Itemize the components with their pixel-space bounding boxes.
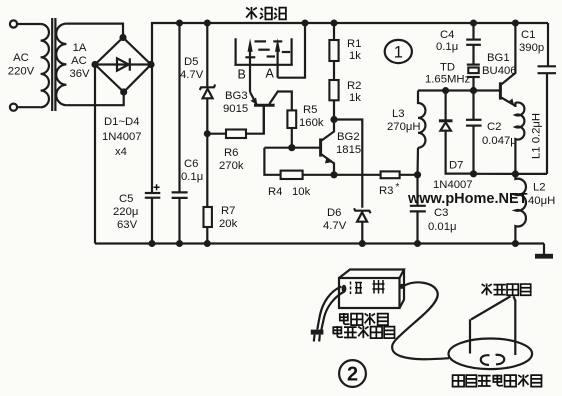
label R1 1k [347, 38, 361, 62]
transformer T primary winding [41, 24, 49, 107]
zener diode D6 [354, 208, 371, 243]
wire electrode A to top rail [278, 23, 305, 78]
node BG1 collector rail [512, 20, 519, 27]
resistor R7 [204, 134, 212, 244]
inductor L3 [418, 91, 426, 175]
water level dashes [255, 41, 291, 56]
capacitor C6 [172, 23, 188, 244]
node bridge top vertex [119, 34, 126, 41]
water level pin right [514, 300, 516, 356]
svg-text:R1: R1 [347, 38, 361, 50]
node bridge bottom vertex [120, 88, 127, 95]
node bridge right vertex [147, 61, 154, 68]
circled 1 [385, 40, 412, 63]
transistor BG1 [500, 23, 515, 107]
diode D7 [439, 91, 474, 174]
svg-text:*: * [396, 182, 400, 193]
label D6 4.7V [323, 207, 347, 232]
capacitor C1 [538, 23, 557, 174]
wire bridge left vertex down to bottom rail [94, 65, 96, 244]
label BG2 1815 [336, 131, 361, 156]
power cord double line [317, 287, 344, 331]
label R2 1k [347, 80, 361, 104]
atomizer head ellipse [449, 339, 533, 370]
svg-text:D6: D6 [327, 207, 341, 219]
svg-text:1k: 1k [349, 92, 361, 104]
node D5 top [204, 20, 211, 27]
bridge inner diode bar [129, 58, 131, 70]
label C2 0.047u [482, 121, 517, 147]
label water level pins (shui wei chu zhen) [482, 284, 531, 296]
atomizer mouth left arc [481, 355, 490, 365]
svg-text:TD: TD [440, 62, 455, 74]
adapter box right face [400, 270, 405, 309]
svg-text:1N4007: 1N4007 [433, 179, 473, 191]
node D7 top [442, 87, 449, 94]
wire base line L3 to BG1 [418, 89, 500, 91]
svg-text:1.65MHz: 1.65MHz [425, 74, 471, 86]
label D7 1N4007 [433, 160, 473, 192]
output cable to atomizer [392, 282, 449, 359]
pointer line to right pin [514, 296, 516, 300]
svg-text:www.pHome.NET: www.pHome.NET [407, 191, 528, 207]
svg-text:220V: 220V [8, 66, 35, 78]
adapter box top face [339, 270, 404, 279]
node R5 bottom [288, 144, 295, 151]
capacitor C3 [410, 175, 426, 244]
label TD 1.65MHz [425, 62, 471, 86]
svg-text:63V: 63V [117, 219, 138, 231]
resistor R5 [287, 110, 296, 147]
resistor R6 [207, 107, 263, 139]
capacitor C2 [466, 91, 482, 174]
svg-text:36V: 36V [69, 68, 90, 80]
label AC 220V [8, 52, 35, 78]
top rail [152, 23, 548, 65]
resistor R3 [381, 171, 418, 178]
label circuit adapter (dian lu shi pei qi) [333, 326, 394, 338]
svg-text:1A: 1A [73, 42, 87, 54]
adapter box left connector [342, 285, 347, 293]
wire terminal top to primary [17, 23, 40, 25]
label hf piezo atomizer head (gao pin ya dian wu hua tou) [453, 375, 542, 387]
node L1 L2 junction [512, 170, 519, 177]
node C2 bottom emitter line [470, 170, 477, 177]
wire emitter net [474, 173, 548, 175]
inductor L2 [515, 174, 526, 244]
node bridge left vertex [91, 61, 98, 68]
node C6 top [176, 20, 183, 27]
svg-text:220μ: 220μ [113, 206, 138, 218]
svg-text:R5: R5 [303, 104, 317, 116]
svg-text:B: B [238, 68, 246, 82]
wire terminal bottom to primary [17, 106, 40, 108]
svg-text:BG1: BG1 [487, 52, 510, 64]
transformer T secondary winding [56, 24, 66, 106]
wire secondary top to bridge top vertex [66, 24, 123, 38]
label BG1 BU406 [482, 52, 517, 77]
transistor BG3 [250, 92, 292, 134]
label L2 40uH [528, 182, 555, 208]
bridge inner diode triangle [117, 58, 129, 70]
node R2 bottom collector junction [330, 116, 337, 123]
svg-text:C2: C2 [487, 121, 501, 133]
svg-text:160k: 160k [299, 117, 324, 129]
resistor R2 [329, 80, 338, 120]
svg-text:10k: 10k [292, 186, 311, 198]
atomizer mouth right arc [496, 355, 505, 365]
node C5 bottom [149, 240, 156, 247]
svg-text:D7: D7 [449, 160, 463, 172]
svg-text:390p: 390p [519, 42, 544, 54]
electrode B [245, 38, 255, 92]
node D6 bottom [359, 240, 366, 247]
node BG2 emitter [330, 171, 337, 178]
svg-text:0.1μ: 0.1μ [181, 171, 203, 183]
svg-text:A: A [266, 67, 275, 81]
label R3 * [379, 182, 400, 197]
svg-text:L1 0.2μH: L1 0.2μH [531, 113, 543, 159]
resistor R4 [281, 171, 334, 179]
label C5 220u 63V [113, 193, 138, 231]
node TD bottom base line [470, 87, 477, 94]
svg-text:AC: AC [13, 52, 29, 64]
label C3 0.01u [428, 207, 457, 233]
bottom rail [95, 242, 544, 244]
transducer TD crystal [467, 65, 480, 91]
AC input terminal bottom [10, 104, 17, 111]
svg-text:4.7V: 4.7V [323, 220, 347, 232]
AC input terminal top [10, 20, 17, 27]
label power control (dian yuan kong zhi) [340, 313, 388, 325]
svg-text:C4: C4 [440, 29, 454, 41]
node R1 top [331, 20, 338, 27]
svg-text:C3: C3 [434, 207, 448, 219]
svg-text:D5: D5 [184, 56, 198, 68]
svg-text:9015: 9015 [223, 103, 248, 115]
wire secondary bottom to bridge bottom vertex [66, 92, 123, 105]
svg-text:R6: R6 [224, 147, 238, 159]
capacitor C5 [145, 65, 161, 244]
svg-text:C6: C6 [184, 158, 198, 170]
svg-text:BG3: BG3 [225, 90, 248, 102]
svg-text:0.01μ: 0.01μ [428, 221, 457, 233]
label BG3 9015 [223, 90, 248, 115]
circled 2 [339, 360, 366, 387]
label D5 4.7V [180, 56, 204, 81]
label R7 20k [219, 205, 238, 230]
svg-text:BG2: BG2 [337, 131, 360, 143]
svg-text:R2: R2 [347, 80, 361, 92]
ground [535, 244, 553, 259]
svg-text:C5: C5 [119, 193, 133, 205]
label L3 270uH [387, 108, 421, 133]
wire bridge right vertex to positive line [151, 63, 152, 65]
capacitor C4 [466, 23, 481, 65]
svg-text:4.7V: 4.7V [180, 69, 204, 81]
label 1A AC 36V [69, 42, 90, 80]
zener diode D5 [200, 23, 215, 134]
svg-text:40μH: 40μH [528, 195, 555, 207]
wire base net left bend to R4 [264, 148, 280, 175]
wire emitter line to R3 [334, 174, 381, 176]
svg-text:D1~D4: D1~D4 [104, 116, 139, 128]
label R5 160k [299, 104, 324, 129]
transformer core [52, 18, 55, 111]
svg-text:R4: R4 [268, 186, 282, 198]
svg-text:270μH: 270μH [387, 121, 421, 133]
node C6 bottom [176, 240, 183, 247]
svg-text:1815: 1815 [336, 144, 361, 156]
svg-text:x4: x4 [115, 146, 127, 158]
label water solution (shui rong ye) [246, 7, 286, 19]
pointer line to left pin [471, 296, 511, 319]
water vessel [234, 38, 292, 65]
wire base net to BG2 [264, 147, 320, 149]
label R6 270k [219, 147, 244, 172]
svg-text:1: 1 [394, 44, 403, 62]
node electrode A rail [302, 20, 309, 27]
resistor R1 [329, 23, 338, 80]
node R3 right L3 C3 junction [414, 171, 421, 178]
adapter vents group 1 [351, 282, 363, 295]
svg-text:20k: 20k [219, 218, 238, 230]
bridge inner diode line [98, 63, 148, 65]
adapter box right connector [399, 284, 404, 289]
adapter box front face [339, 278, 400, 308]
svg-text:L3: L3 [392, 108, 405, 120]
svg-text:270k: 270k [219, 160, 244, 172]
label C4 0.1u [436, 29, 458, 53]
svg-text:R3: R3 [379, 185, 393, 197]
svg-text:R7: R7 [221, 205, 235, 217]
node D5-R6-R7 junction [204, 130, 211, 137]
label D1~D4 1N4007 x4 [102, 116, 142, 158]
adapter vents group 2 [373, 280, 385, 294]
label R4 10k [268, 186, 311, 198]
svg-text:C1: C1 [521, 29, 535, 41]
plug [311, 330, 324, 342]
bridge rectifier D1-D4 diamond [95, 38, 151, 93]
svg-text:L2: L2 [533, 182, 546, 194]
wire collector node to D6 branch [334, 120, 362, 208]
node L2 bottom [512, 240, 519, 247]
svg-text:2: 2 [347, 364, 358, 386]
svg-text:0.047μ: 0.047μ [482, 135, 517, 147]
svg-text:BU406: BU406 [482, 65, 517, 77]
inductor L1 [515, 103, 524, 174]
transistor BG2 [321, 120, 334, 175]
svg-text:AC: AC [71, 55, 87, 67]
label C1 390p [519, 29, 544, 54]
node C3 bottom [414, 240, 421, 247]
label C6 0.1u [181, 158, 203, 183]
water level pin left [469, 319, 471, 353]
svg-text:0.1μ: 0.1μ [436, 41, 458, 53]
node C4 top [470, 20, 477, 27]
svg-text:1k: 1k [349, 50, 361, 62]
svg-text:1N4007: 1N4007 [102, 131, 142, 143]
electrode A [273, 38, 282, 77]
node R7 bottom [204, 240, 211, 247]
